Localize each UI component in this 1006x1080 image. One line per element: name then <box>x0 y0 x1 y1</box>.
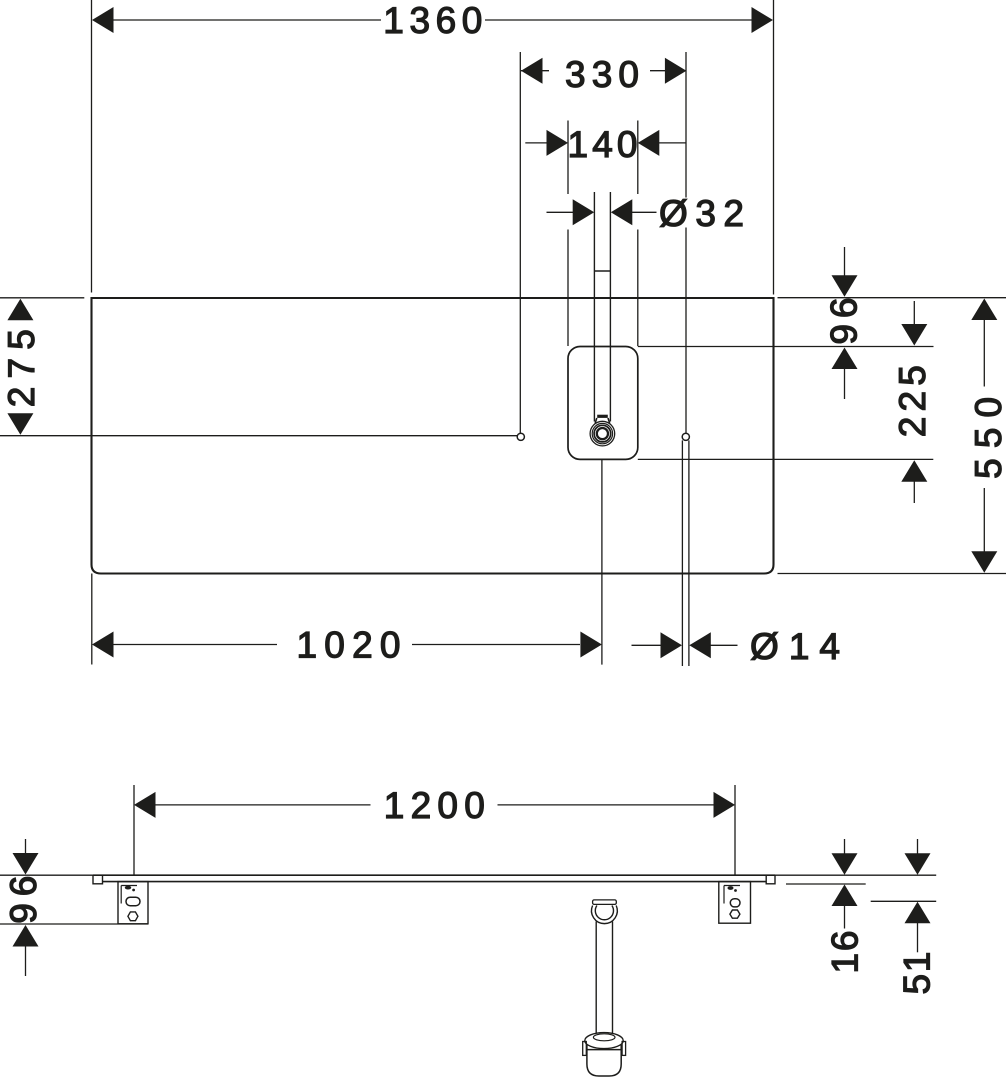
dimension 225 <box>892 301 933 503</box>
hole diameter 14 extension lines <box>682 440 689 666</box>
svg-text:1360: 1360 <box>383 0 482 41</box>
svg-text:Ø14: Ø14 <box>750 626 840 667</box>
svg-text:1020: 1020 <box>297 625 401 666</box>
dimension 1360 <box>92 0 773 41</box>
dimension 96 (side view left) <box>3 839 44 976</box>
dimension 1200 <box>134 785 735 826</box>
svg-text:550: 550 <box>968 397 1006 479</box>
extension line right of 140 (basin cutout right) <box>637 121 639 347</box>
svg-text:275: 275 <box>1 329 42 407</box>
svg-text:225: 225 <box>892 365 933 437</box>
svg-text:1200: 1200 <box>384 785 485 826</box>
dimension 96 (top view right) <box>824 247 865 399</box>
drain trap outlet ring <box>592 906 618 924</box>
left wall bracket <box>118 882 148 924</box>
reference line 96 bottom (left) <box>0 923 148 925</box>
drain trap connector cap <box>593 900 617 905</box>
extension line right of 330 (hole centre) <box>685 52 687 433</box>
drain trap cup side tabs <box>583 1042 626 1056</box>
extension line below slab left (1020) <box>91 574 93 665</box>
console slab (side view) <box>93 875 775 881</box>
reference line top right (slab top edge extended) <box>778 297 1006 299</box>
dimension 140 <box>525 124 686 165</box>
extension line left of 140 (basin cutout left) <box>567 121 569 347</box>
svg-text:140: 140 <box>568 124 638 165</box>
drain fitting collar <box>595 415 609 423</box>
dimension 550 <box>968 299 1006 573</box>
basin cutout rounded rectangle <box>568 347 638 460</box>
reference line basin bottom extended right <box>638 458 934 460</box>
dimension 1020 <box>92 625 602 666</box>
reference line 51 <box>871 900 937 902</box>
hole circle right <box>682 433 689 440</box>
svg-text:51: 51 <box>897 952 938 995</box>
reference line basin top extended right <box>638 346 934 348</box>
dimension diameter 32 <box>547 193 745 234</box>
dimension 275 (left) <box>0 298 84 435</box>
drain trap cup body <box>587 1045 621 1076</box>
tap hole circle left <box>517 433 524 440</box>
extension line right of 1360 (slab right edge extended) <box>773 0 775 295</box>
extension line left of 1360 (slab left edge extended) <box>91 0 93 293</box>
svg-text:96: 96 <box>3 876 44 924</box>
dimension 51 <box>897 839 938 995</box>
dimension 16 <box>825 839 866 974</box>
right wall bracket <box>719 882 751 924</box>
reference line slab bottom extended right <box>778 573 1006 575</box>
right end mounting tab <box>766 875 775 884</box>
drain trap pipe <box>596 922 612 1037</box>
dimension 330 <box>521 54 686 95</box>
slab outline (top view) <box>92 298 774 574</box>
svg-text:Ø32: Ø32 <box>659 193 744 234</box>
extension line 1200 left <box>133 785 135 875</box>
reference line 16 <box>786 883 866 885</box>
drain pipe above slab <box>594 192 610 422</box>
drain trap cup flange <box>585 1033 623 1049</box>
extension line left of 330 (tap hole centre) <box>519 52 521 433</box>
dimension diameter 14 <box>632 626 841 667</box>
reference line through slab top (side view) <box>0 874 936 876</box>
extension line 1200 right <box>734 785 736 875</box>
drain waste circles <box>590 421 615 446</box>
tap hole centreline <box>0 435 517 437</box>
drain trap cup inner ellipse <box>593 1034 615 1041</box>
svg-text:16: 16 <box>825 931 866 974</box>
svg-text:96: 96 <box>824 298 865 345</box>
left end mounting tab <box>93 875 103 884</box>
svg-text:330: 330 <box>565 54 639 95</box>
drain centreline below basin <box>601 459 603 664</box>
